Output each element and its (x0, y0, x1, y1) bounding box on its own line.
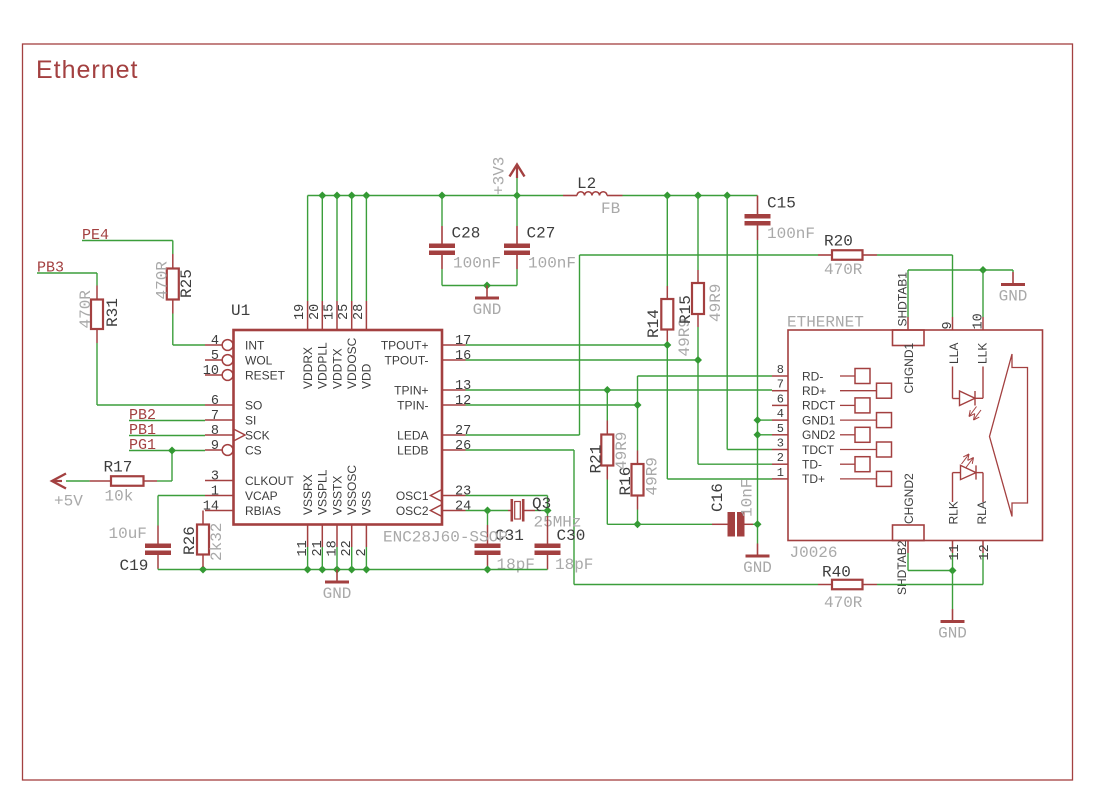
svg-text:28: 28 (352, 304, 367, 320)
svg-text:470R: 470R (77, 290, 95, 329)
svg-text:+3V3: +3V3 (491, 157, 509, 195)
svg-text:LLK: LLK (976, 343, 990, 364)
svg-text:19: 19 (293, 304, 308, 320)
svg-text:100nF: 100nF (453, 255, 501, 273)
svg-text:GND2: GND2 (802, 428, 836, 442)
svg-text:R15: R15 (677, 295, 695, 324)
svg-text:49R9: 49R9 (707, 284, 725, 322)
svg-text:5: 5 (777, 422, 784, 436)
svg-text:VDDTX: VDDTX (330, 348, 344, 389)
svg-text:10uF: 10uF (109, 525, 147, 543)
svg-text:49R9: 49R9 (613, 432, 631, 470)
svg-text:U1: U1 (231, 302, 250, 320)
svg-text:C19: C19 (120, 557, 149, 575)
svg-text:23: 23 (455, 485, 471, 500)
svg-text:SCK: SCK (245, 428, 270, 442)
svg-text:21: 21 (311, 540, 326, 556)
svg-text:VSS: VSS (360, 491, 374, 515)
svg-text:TDCT: TDCT (802, 443, 835, 457)
svg-text:R20: R20 (824, 233, 853, 251)
svg-text:11: 11 (296, 540, 311, 556)
svg-text:C16: C16 (709, 483, 727, 512)
svg-text:C15: C15 (767, 195, 796, 213)
svg-text:20: 20 (308, 304, 323, 320)
svg-text:49R9: 49R9 (644, 457, 662, 495)
svg-text:15: 15 (323, 304, 338, 320)
svg-text:R26: R26 (181, 526, 199, 555)
svg-text:PG1: PG1 (129, 437, 156, 454)
svg-text:5: 5 (211, 349, 219, 364)
svg-text:27: 27 (455, 424, 471, 439)
svg-text:6: 6 (777, 392, 784, 406)
svg-text:OSC2: OSC2 (396, 504, 429, 518)
svg-text:R31: R31 (104, 298, 122, 327)
svg-text:8: 8 (211, 424, 219, 439)
svg-text:SO: SO (245, 398, 262, 412)
svg-text:SHDTAB2: SHDTAB2 (895, 540, 909, 595)
svg-text:RDCT: RDCT (802, 399, 836, 413)
svg-text:GND: GND (938, 625, 967, 643)
svg-text:2k32: 2k32 (208, 523, 226, 561)
svg-text:RLA: RLA (975, 501, 989, 524)
svg-text:Q3: Q3 (532, 495, 551, 513)
svg-text:3: 3 (777, 437, 784, 451)
svg-text:VCAP: VCAP (245, 489, 278, 503)
svg-text:4: 4 (211, 334, 219, 349)
svg-text:TPIN+: TPIN+ (394, 383, 428, 397)
svg-text:Ethernet: Ethernet (36, 56, 139, 84)
svg-text:1: 1 (211, 485, 219, 500)
svg-text:WOL: WOL (245, 353, 273, 367)
svg-text:470R: 470R (824, 261, 863, 279)
svg-text:FB: FB (601, 200, 620, 218)
svg-text:VSSOSC: VSSOSC (345, 465, 359, 515)
svg-text:2: 2 (355, 548, 370, 556)
svg-text:RBIAS: RBIAS (245, 504, 281, 518)
svg-text:OSC1: OSC1 (396, 489, 429, 503)
svg-text:22: 22 (340, 540, 355, 556)
svg-text:RD+: RD+ (802, 384, 826, 398)
svg-text:PB3: PB3 (37, 260, 64, 277)
svg-text:10: 10 (203, 364, 219, 379)
svg-text:VSSTX: VSSTX (330, 476, 344, 515)
svg-text:INT: INT (245, 338, 265, 352)
svg-text:9: 9 (941, 321, 956, 329)
svg-text:GND: GND (743, 559, 772, 577)
svg-text:18pF: 18pF (555, 556, 593, 574)
svg-text:ENC28J60-SSOP: ENC28J60-SSOP (383, 529, 508, 547)
svg-text:GND: GND (323, 585, 352, 603)
svg-text:RESET: RESET (245, 368, 286, 382)
svg-text:VDD: VDD (360, 363, 374, 389)
svg-text:12: 12 (978, 544, 993, 560)
svg-text:3: 3 (211, 470, 219, 485)
svg-text:17: 17 (455, 334, 471, 349)
svg-text:C27: C27 (527, 225, 556, 243)
svg-text:VSSRX: VSSRX (301, 474, 315, 515)
svg-text:TPOUT+: TPOUT+ (381, 338, 429, 352)
svg-text:470R: 470R (154, 261, 172, 300)
svg-text:CLKOUT: CLKOUT (245, 474, 294, 488)
svg-text:C30: C30 (557, 527, 586, 545)
svg-text:13: 13 (455, 379, 471, 394)
svg-text:7: 7 (777, 378, 784, 392)
svg-text:GND1: GND1 (802, 413, 836, 427)
svg-text:2: 2 (777, 451, 784, 465)
svg-text:7: 7 (211, 409, 219, 424)
svg-text:+5V: +5V (54, 493, 83, 511)
svg-text:100nF: 100nF (528, 255, 576, 273)
svg-text:26: 26 (455, 439, 471, 454)
svg-text:18pF: 18pF (497, 556, 535, 574)
svg-text:24: 24 (455, 500, 471, 515)
svg-text:TPIN-: TPIN- (397, 398, 428, 412)
svg-text:100nF: 100nF (767, 225, 815, 243)
svg-text:SI: SI (245, 413, 256, 427)
svg-text:GND: GND (473, 301, 502, 319)
svg-text:TD+: TD+ (802, 472, 825, 486)
svg-text:VDDPLL: VDDPLL (316, 342, 330, 389)
svg-text:11: 11 (948, 544, 963, 560)
svg-text:ETHERNET: ETHERNET (787, 314, 864, 332)
svg-text:GND: GND (999, 288, 1028, 306)
svg-text:R40: R40 (822, 564, 851, 582)
svg-text:10k: 10k (105, 488, 134, 506)
svg-text:4: 4 (777, 407, 784, 421)
svg-text:14: 14 (203, 500, 219, 515)
svg-text:18: 18 (326, 540, 341, 556)
svg-text:1: 1 (777, 466, 784, 480)
svg-text:VDDRX: VDDRX (301, 347, 315, 389)
svg-text:LLA: LLA (947, 343, 961, 364)
svg-text:C28: C28 (452, 225, 481, 243)
svg-text:CS: CS (245, 443, 262, 457)
svg-text:J0026: J0026 (790, 544, 838, 562)
svg-text:25: 25 (337, 304, 352, 320)
svg-text:L2: L2 (577, 175, 596, 193)
svg-text:RD-: RD- (802, 369, 823, 383)
svg-text:LEDA: LEDA (397, 428, 428, 442)
svg-text:LEDB: LEDB (397, 443, 428, 457)
svg-text:16: 16 (455, 349, 471, 364)
svg-text:R21: R21 (588, 445, 606, 474)
svg-text:R16: R16 (617, 467, 635, 496)
svg-text:R17: R17 (104, 459, 133, 477)
svg-text:RLK: RLK (947, 501, 961, 524)
svg-text:VDDOSC: VDDOSC (345, 337, 359, 389)
svg-text:CHGND1: CHGND1 (902, 343, 916, 394)
svg-text:12: 12 (455, 394, 471, 409)
svg-text:R14: R14 (645, 309, 663, 338)
svg-text:10: 10 (972, 313, 987, 329)
svg-text:PE4: PE4 (82, 227, 109, 244)
svg-text:6: 6 (211, 394, 219, 409)
svg-text:TPOUT-: TPOUT- (385, 353, 429, 367)
svg-text:470R: 470R (824, 594, 863, 612)
svg-text:8: 8 (777, 363, 784, 377)
svg-text:9: 9 (211, 439, 219, 454)
svg-text:R25: R25 (178, 269, 196, 298)
svg-text:TD-: TD- (802, 458, 822, 472)
svg-text:CHGND2: CHGND2 (902, 473, 916, 524)
svg-text:10nF: 10nF (739, 479, 757, 517)
svg-text:VSSPLL: VSSPLL (316, 469, 330, 515)
